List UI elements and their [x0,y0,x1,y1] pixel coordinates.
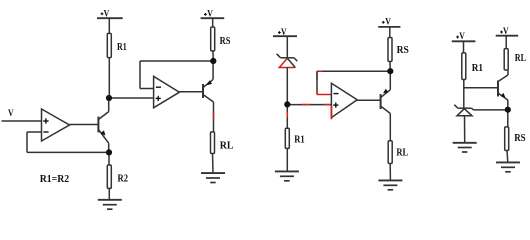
svg-text:RS: RS [397,44,409,56]
svg-text:RL: RL [220,140,234,152]
svg-text:R1: R1 [294,133,305,145]
svg-text:R2: R2 [118,173,129,185]
svg-text:RL: RL [396,146,408,158]
svg-text:V: V [207,9,213,19]
svg-text:V: V [281,28,287,38]
svg-text:R1: R1 [472,62,483,74]
svg-text:RS: RS [514,132,525,144]
svg-text:V: V [385,18,391,28]
svg-text:V: V [104,9,110,19]
svg-text:V: V [503,27,509,37]
svg-text:R1=R2: R1=R2 [40,173,70,185]
svg-text:V: V [8,109,14,119]
svg-text:RS: RS [220,35,231,47]
svg-text:RL: RL [515,52,526,64]
svg-text:R1: R1 [117,41,127,53]
svg-text:V: V [459,32,465,42]
